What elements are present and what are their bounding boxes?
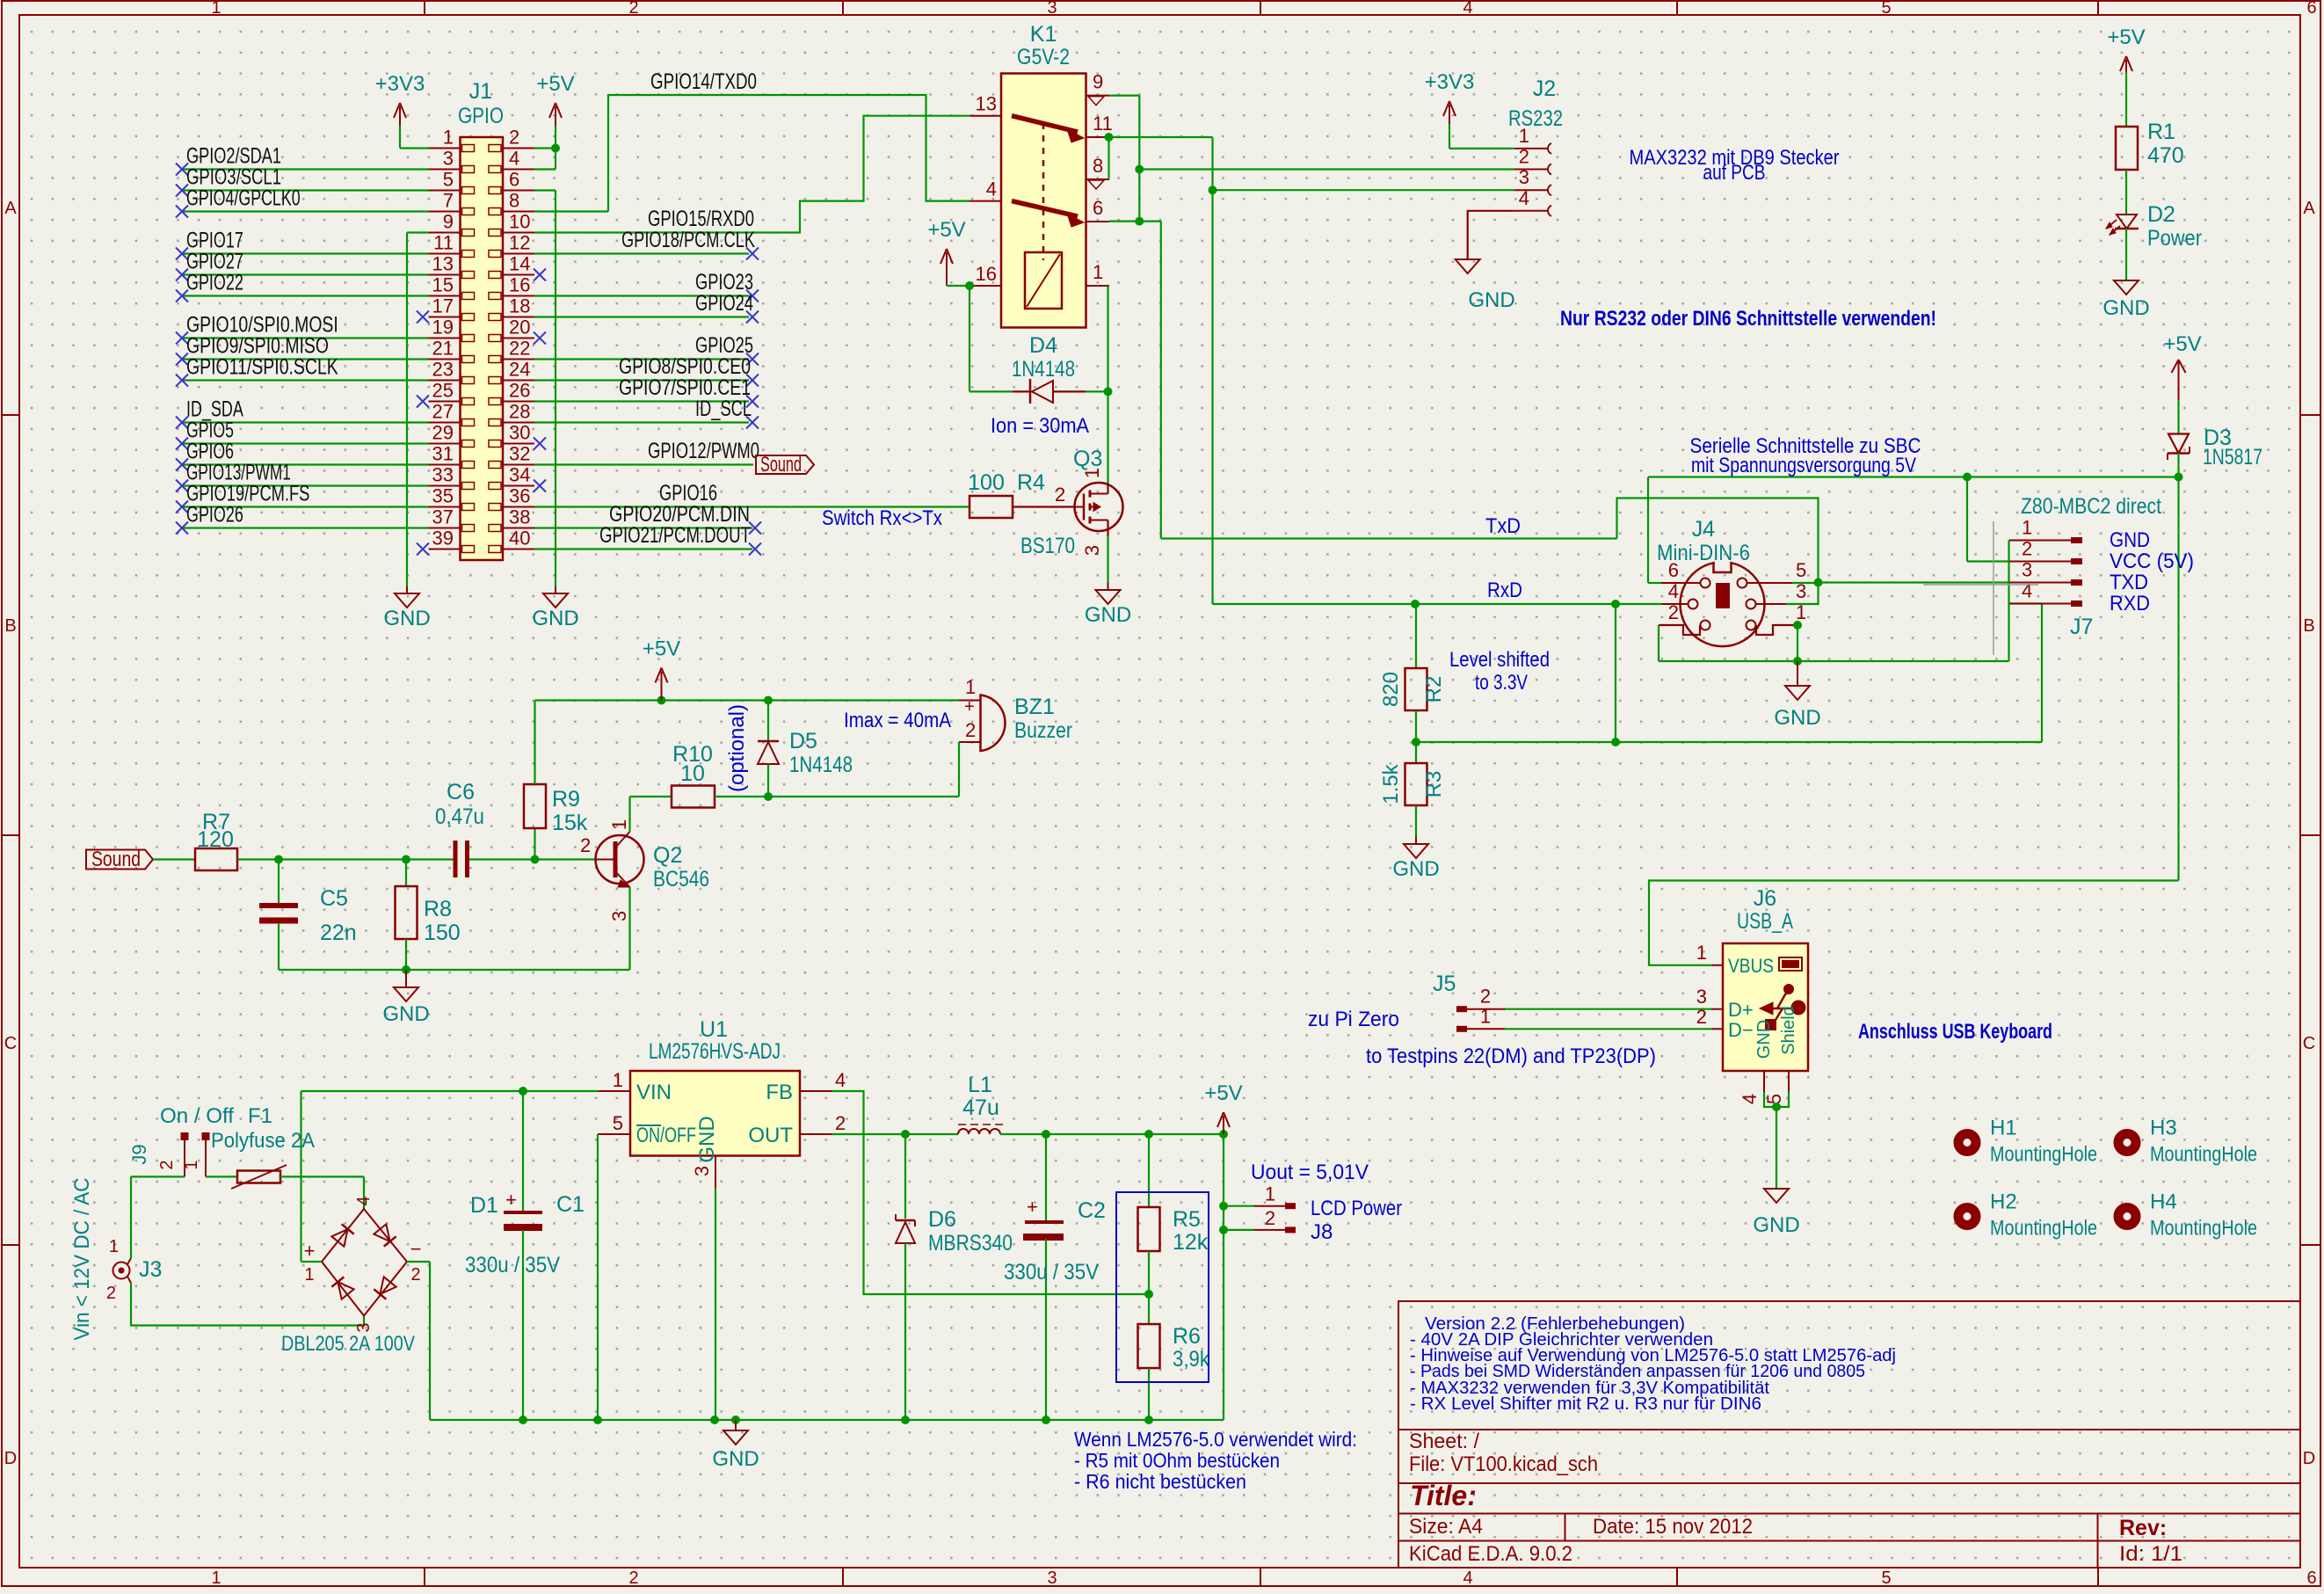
svg-text:1: 1: [1265, 1183, 1275, 1205]
svg-text:1: 1: [2022, 517, 2032, 539]
svg-text:BS170: BS170: [1020, 534, 1075, 558]
svg-text:3: 3: [2022, 559, 2032, 581]
svg-text:2: 2: [509, 127, 519, 149]
svg-text:+5V: +5V: [643, 637, 680, 661]
svg-text:GPIO22: GPIO22: [186, 271, 243, 295]
svg-text:5: 5: [1796, 559, 1806, 581]
svg-text:R4: R4: [1017, 470, 1045, 495]
svg-text:6: 6: [1093, 197, 1103, 219]
svg-text:R6: R6: [1173, 1324, 1201, 1349]
svg-text:15k: 15k: [552, 811, 588, 835]
svg-text:31: 31: [432, 443, 454, 465]
svg-text:+: +: [505, 1189, 517, 1211]
svg-text:TxD: TxD: [1485, 514, 1521, 538]
svg-text:Shield: Shield: [1779, 1006, 1798, 1055]
svg-text:1: 1: [1796, 601, 1806, 623]
svg-text:Buzzer: Buzzer: [1014, 718, 1072, 743]
svg-text:3: 3: [1519, 166, 1529, 188]
svg-text:12k: 12k: [1173, 1230, 1209, 1255]
svg-text:4: 4: [509, 148, 519, 170]
svg-text:Id: 1/1: Id: 1/1: [2119, 1542, 2182, 1566]
svg-text:(optional): (optional): [725, 704, 749, 792]
svg-text:2: 2: [1055, 484, 1065, 506]
svg-text:470: 470: [2147, 143, 2184, 168]
svg-text:C6: C6: [447, 780, 475, 804]
svg-text:5: 5: [1763, 1094, 1785, 1104]
svg-text:100: 100: [968, 470, 1005, 495]
svg-text:1.5k: 1.5k: [1379, 763, 1403, 804]
svg-text:25: 25: [432, 380, 454, 402]
svg-text:L1: L1: [968, 1073, 992, 1097]
svg-text:4: 4: [354, 1196, 374, 1205]
svg-text:34: 34: [509, 464, 530, 486]
svg-text:J1: J1: [469, 79, 492, 104]
svg-text:ID_SCL: ID_SCL: [695, 397, 752, 421]
svg-text:+5V: +5V: [1204, 1081, 1242, 1105]
svg-text:3: 3: [608, 911, 630, 921]
svg-text:C: C: [2303, 1034, 2315, 1053]
svg-text:USB_A: USB_A: [1737, 909, 1793, 934]
svg-text:Mini-DIN-6: Mini-DIN-6: [1657, 541, 1750, 565]
svg-text:J2: J2: [1533, 76, 1556, 101]
svg-text:35: 35: [432, 485, 454, 507]
svg-text:27: 27: [432, 401, 454, 423]
svg-text:6: 6: [509, 169, 519, 191]
svg-text:2: 2: [106, 1284, 116, 1303]
svg-text:3,9k: 3,9k: [1173, 1347, 1209, 1372]
svg-text:23: 23: [432, 359, 454, 381]
svg-text:Uout = 5,01V: Uout = 5,01V: [1251, 1161, 1369, 1184]
svg-text:File: VT100.kicad_sch: File: VT100.kicad_sch: [1409, 1452, 1598, 1476]
svg-text:11: 11: [433, 232, 454, 254]
svg-text:J8: J8: [1311, 1220, 1333, 1244]
svg-text:GND: GND: [2110, 528, 2150, 552]
svg-text:+: +: [964, 697, 975, 717]
svg-text:TXD: TXD: [2110, 571, 2148, 594]
svg-text:5: 5: [1881, 0, 1891, 18]
svg-text:2: 2: [1696, 1006, 1707, 1028]
svg-text:1: 1: [304, 1265, 314, 1285]
svg-text:15: 15: [432, 274, 454, 296]
svg-text:BZ1: BZ1: [1014, 695, 1055, 719]
svg-text:+5V: +5V: [536, 72, 574, 96]
svg-text:2: 2: [628, 1569, 638, 1588]
svg-text:GND: GND: [1774, 706, 1820, 730]
svg-text:D4: D4: [1029, 333, 1057, 358]
svg-text:4: 4: [1739, 1094, 1761, 1104]
svg-text:D2: D2: [2147, 202, 2175, 227]
svg-text:H3: H3: [2150, 1117, 2177, 1140]
svg-text:FB: FB: [766, 1081, 793, 1104]
svg-text:MountingHole: MountingHole: [2150, 1143, 2257, 1167]
svg-text:LCD Power: LCD Power: [1311, 1197, 1402, 1220]
svg-text:6: 6: [2306, 1569, 2316, 1588]
svg-text:21: 21: [432, 338, 454, 360]
svg-text:VIN: VIN: [636, 1081, 672, 1104]
svg-text:39: 39: [432, 528, 454, 550]
svg-text:3: 3: [1047, 1569, 1057, 1588]
svg-text:GND: GND: [1085, 603, 1131, 627]
svg-text:330u / 35V: 330u / 35V: [465, 1253, 560, 1277]
svg-text:B: B: [4, 616, 16, 636]
svg-text:Sheet: /: Sheet: /: [1409, 1430, 1479, 1453]
svg-text:2: 2: [1519, 146, 1529, 168]
svg-text:1: 1: [443, 127, 454, 149]
svg-text:R5: R5: [1173, 1207, 1201, 1232]
svg-text:2: 2: [2022, 538, 2032, 560]
svg-text:8: 8: [1093, 155, 1103, 177]
svg-text:to Testpins 22(DM) and TP23(DP: to Testpins 22(DM) and TP23(DP): [1366, 1044, 1656, 1068]
svg-text:GND: GND: [1754, 1020, 1774, 1059]
svg-text:4: 4: [986, 178, 997, 200]
svg-text:KiCad E.D.A. 9.0.2: KiCad E.D.A. 9.0.2: [1409, 1542, 1572, 1566]
svg-text:2: 2: [157, 1160, 177, 1169]
svg-text:2: 2: [1265, 1207, 1275, 1229]
svg-text:120: 120: [197, 827, 234, 852]
svg-text:1N4148: 1N4148: [1012, 357, 1075, 382]
svg-text:2: 2: [628, 0, 638, 18]
svg-text:GND: GND: [383, 607, 430, 630]
svg-text:J5: J5: [1433, 972, 1456, 996]
svg-text:H2: H2: [1990, 1190, 2017, 1214]
svg-text:GPIO11/SPI0.SCLK: GPIO11/SPI0.SCLK: [186, 355, 338, 380]
svg-text:C1: C1: [556, 1192, 585, 1217]
svg-text:to 3.3V: to 3.3V: [1475, 671, 1528, 695]
svg-text:+3V3: +3V3: [1425, 70, 1475, 94]
svg-text:Size: A4: Size: A4: [1409, 1515, 1483, 1539]
svg-text:D−: D−: [1728, 1019, 1754, 1041]
svg-text:2: 2: [1668, 601, 1679, 623]
svg-text:4: 4: [2022, 580, 2032, 602]
svg-text:GND: GND: [1468, 288, 1514, 312]
svg-text:MountingHole: MountingHole: [1990, 1217, 2097, 1241]
svg-text:13: 13: [432, 253, 454, 275]
svg-text:1: 1: [1696, 942, 1707, 964]
svg-text:22n: 22n: [320, 921, 357, 945]
svg-text:820: 820: [1379, 672, 1403, 707]
svg-text:3: 3: [354, 1322, 374, 1332]
svg-text:MBRS340: MBRS340: [928, 1231, 1013, 1256]
svg-text:GPIO18/PCM.CLK: GPIO18/PCM.CLK: [621, 228, 755, 252]
svg-text:3: 3: [1081, 545, 1103, 556]
svg-text:4: 4: [1519, 187, 1529, 209]
svg-text:U1: U1: [700, 1017, 728, 1042]
svg-text:5: 5: [443, 169, 454, 191]
svg-text:Anschluss USB Keyboard: Anschluss USB Keyboard: [1858, 1020, 2052, 1044]
svg-text:16: 16: [509, 274, 530, 296]
svg-text:28: 28: [509, 401, 530, 423]
svg-text:29: 29: [432, 422, 454, 444]
svg-text:5: 5: [1881, 1569, 1891, 1588]
svg-text:Vin < 12V DC / AC: Vin < 12V DC / AC: [70, 1178, 94, 1341]
svg-text:R2: R2: [1422, 676, 1446, 703]
svg-text:2: 2: [580, 834, 591, 856]
svg-text:16: 16: [976, 263, 997, 285]
svg-text:33: 33: [432, 464, 454, 486]
svg-text:2: 2: [1480, 986, 1491, 1008]
svg-text:R3: R3: [1422, 771, 1446, 798]
svg-text:GPIO24: GPIO24: [695, 291, 753, 316]
svg-text:- RX Level Shifter mit R2 u. R: - RX Level Shifter mit R2 u. R3 nur für …: [1410, 1394, 1761, 1414]
svg-text:30: 30: [509, 422, 530, 444]
svg-text:1: 1: [1093, 261, 1103, 283]
svg-text:GPIO4/GPCLK0: GPIO4/GPCLK0: [186, 186, 301, 211]
svg-text:RxD: RxD: [1487, 579, 1522, 602]
svg-text:7: 7: [443, 190, 454, 212]
svg-text:J3: J3: [139, 1257, 162, 1282]
svg-text:D+: D+: [1728, 999, 1754, 1021]
svg-text:Z80-MBC2 direct: Z80-MBC2 direct: [2021, 494, 2161, 519]
svg-text:VBUS: VBUS: [1728, 955, 1774, 977]
svg-text:36: 36: [509, 485, 530, 507]
svg-text:11: 11: [1093, 113, 1113, 135]
svg-text:1N4148: 1N4148: [789, 753, 853, 777]
svg-text:- R5 mit 0Ohm bestücken: - R5 mit 0Ohm bestücken: [1074, 1449, 1280, 1472]
svg-text:VCC (5V): VCC (5V): [2110, 550, 2194, 573]
svg-text:RS232: RS232: [1508, 106, 1563, 131]
svg-text:J4: J4: [1692, 517, 1716, 542]
svg-text:GPIO26: GPIO26: [186, 503, 243, 528]
svg-text:19: 19: [432, 317, 454, 338]
svg-text:Power: Power: [2147, 226, 2202, 251]
svg-text:40: 40: [509, 528, 530, 550]
svg-text:Wenn LM2576-5.0 verwendet wird: Wenn LM2576-5.0 verwendet wird:: [1074, 1428, 1357, 1451]
svg-text:3: 3: [1696, 986, 1707, 1008]
svg-text:C5: C5: [320, 886, 348, 911]
svg-text:D6: D6: [928, 1207, 956, 1232]
svg-text:1: 1: [211, 0, 221, 18]
svg-text:J6: J6: [1754, 886, 1776, 911]
svg-text:GPIO21/PCM.DOUT: GPIO21/PCM.DOUT: [599, 523, 751, 548]
svg-text:MountingHole: MountingHole: [1990, 1143, 2097, 1167]
svg-text:A: A: [4, 199, 17, 218]
svg-text:GPIO12/PWM0: GPIO12/PWM0: [648, 439, 759, 463]
svg-text:1: 1: [1480, 1005, 1491, 1027]
svg-text:32: 32: [509, 443, 530, 465]
svg-text:D: D: [2303, 1449, 2315, 1468]
svg-text:4: 4: [1463, 1569, 1472, 1588]
svg-text:4: 4: [835, 1069, 846, 1091]
svg-text:G5V-2: G5V-2: [1017, 45, 1070, 69]
svg-text:Title:: Title:: [1410, 1480, 1477, 1511]
svg-text:On / Off: On / Off: [160, 1104, 234, 1128]
svg-text:J9: J9: [128, 1144, 150, 1164]
svg-text:MountingHole: MountingHole: [2150, 1217, 2257, 1241]
svg-text:H4: H4: [2150, 1190, 2177, 1214]
svg-text:Polyfuse 2A: Polyfuse 2A: [211, 1129, 315, 1153]
svg-text:R9: R9: [552, 787, 580, 812]
svg-text:1: 1: [182, 1160, 201, 1169]
svg-text:1: 1: [109, 1237, 119, 1256]
svg-text:2: 2: [410, 1265, 420, 1285]
svg-text:150: 150: [424, 921, 461, 945]
svg-text:LM2576HVS-ADJ: LM2576HVS-ADJ: [649, 1039, 781, 1064]
svg-text:BC546: BC546: [653, 867, 709, 892]
svg-text:+: +: [1027, 1196, 1038, 1218]
svg-text:B: B: [2303, 616, 2314, 636]
svg-text:+: +: [304, 1240, 316, 1262]
svg-text:C2: C2: [1078, 1198, 1106, 1223]
svg-text:38: 38: [509, 506, 530, 528]
svg-text:3: 3: [1047, 0, 1057, 18]
svg-text:6: 6: [2306, 0, 2316, 18]
svg-text:GPIO: GPIO: [458, 104, 504, 128]
svg-text:Rev:: Rev:: [2119, 1516, 2167, 1540]
svg-text:H1: H1: [1990, 1117, 2017, 1140]
svg-text:ON/OFF: ON/OFF: [636, 1124, 696, 1147]
svg-text:auf PCB: auf PCB: [1703, 161, 1766, 185]
svg-text:mit Spannungsversorgung 5V: mit Spannungsversorgung 5V: [1691, 454, 1916, 477]
svg-text:C: C: [4, 1034, 17, 1053]
svg-text:Level shifted: Level shifted: [1449, 648, 1550, 672]
svg-text:GND: GND: [2102, 296, 2149, 320]
svg-text:Sound: Sound: [760, 453, 802, 477]
svg-text:Ion = 30mA: Ion = 30mA: [991, 414, 1089, 438]
svg-text:OUT: OUT: [748, 1124, 793, 1147]
svg-text:D1: D1: [470, 1193, 498, 1218]
svg-text:18: 18: [509, 295, 530, 317]
svg-text:F1: F1: [248, 1104, 272, 1128]
svg-text:2: 2: [835, 1112, 846, 1134]
svg-text:3: 3: [691, 1166, 713, 1176]
svg-text:GND: GND: [382, 1002, 429, 1026]
svg-text:17: 17: [432, 295, 454, 317]
svg-text:22: 22: [509, 338, 530, 360]
svg-text:R1: R1: [2147, 120, 2175, 144]
svg-text:GND: GND: [1392, 857, 1439, 881]
svg-text:0,47u: 0,47u: [435, 804, 484, 829]
svg-text:9: 9: [1093, 71, 1103, 93]
svg-text:Imax = 40mA: Imax = 40mA: [844, 709, 951, 732]
svg-text:GND: GND: [1753, 1213, 1799, 1237]
svg-text:+5V: +5V: [927, 218, 965, 242]
svg-text:4: 4: [1463, 0, 1472, 18]
svg-text:Nur RS232 oder DIN6 Schnittste: Nur RS232 oder DIN6 Schnittstelle verwen…: [1560, 307, 1936, 331]
svg-text:10: 10: [509, 211, 530, 233]
svg-text:1N5817: 1N5817: [2203, 445, 2262, 469]
svg-text:- R6 nicht bestücken: - R6 nicht bestücken: [1074, 1470, 1246, 1493]
svg-text:5: 5: [613, 1112, 623, 1134]
svg-text:3: 3: [443, 148, 454, 170]
svg-text:D5: D5: [789, 729, 817, 753]
svg-text:10: 10: [680, 761, 705, 786]
svg-text:DBL205 2A 100V: DBL205 2A 100V: [281, 1332, 415, 1356]
svg-text:13: 13: [976, 93, 997, 115]
svg-text:A: A: [2303, 199, 2315, 218]
svg-text:GND: GND: [712, 1447, 759, 1471]
svg-text:Date: 15 nov 2012: Date: 15 nov 2012: [1593, 1515, 1753, 1539]
svg-text:1: 1: [613, 1069, 623, 1091]
svg-text:26: 26: [509, 380, 530, 402]
svg-text:D: D: [4, 1449, 17, 1468]
svg-text:Switch Rx<>Tx: Switch Rx<>Tx: [822, 506, 942, 530]
svg-text:+5V: +5V: [2163, 332, 2201, 356]
svg-text:4: 4: [1668, 580, 1679, 602]
svg-text:Q2: Q2: [653, 843, 682, 868]
svg-text:Sound: Sound: [91, 848, 141, 871]
svg-text:zu Pi Zero: zu Pi Zero: [1308, 1008, 1399, 1031]
svg-text:8: 8: [509, 190, 519, 212]
svg-text:9: 9: [443, 211, 454, 233]
svg-text:37: 37: [432, 506, 454, 528]
svg-text:RXD: RXD: [2110, 592, 2150, 615]
svg-text:Q3: Q3: [1073, 447, 1102, 471]
svg-text:12: 12: [509, 232, 530, 254]
svg-text:−: −: [410, 1238, 422, 1260]
svg-text:2: 2: [965, 719, 976, 741]
svg-text:J7: J7: [2070, 615, 2093, 639]
svg-text:1: 1: [608, 819, 630, 830]
svg-text:+3V3: +3V3: [375, 72, 425, 96]
svg-text:K1: K1: [1030, 22, 1057, 47]
svg-text:R8: R8: [424, 897, 452, 921]
svg-text:330u / 35V: 330u / 35V: [1004, 1260, 1099, 1285]
svg-text:GPIO14/TXD0: GPIO14/TXD0: [650, 69, 757, 94]
svg-text:20: 20: [509, 317, 530, 338]
svg-text:+5V: +5V: [2107, 25, 2145, 49]
svg-text:47u: 47u: [962, 1095, 999, 1120]
svg-text:24: 24: [509, 359, 530, 381]
svg-text:GND: GND: [532, 607, 578, 630]
svg-text:1: 1: [965, 676, 976, 698]
svg-text:14: 14: [509, 253, 530, 275]
svg-text:1: 1: [211, 1569, 221, 1588]
